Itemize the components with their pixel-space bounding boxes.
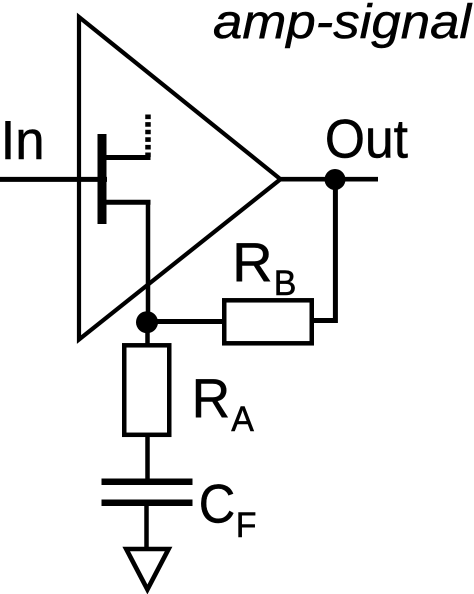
svg-text:F: F (236, 507, 257, 546)
svg-text:R: R (192, 368, 231, 429)
svg-text:amp-signal: amp-signal (213, 0, 473, 48)
svg-text:In: In (1, 110, 45, 171)
svg-text:A: A (231, 401, 254, 440)
svg-text:B: B (274, 265, 297, 304)
svg-text:C: C (199, 474, 236, 535)
svg-text:R: R (232, 231, 273, 292)
svg-text:Out: Out (325, 109, 408, 170)
